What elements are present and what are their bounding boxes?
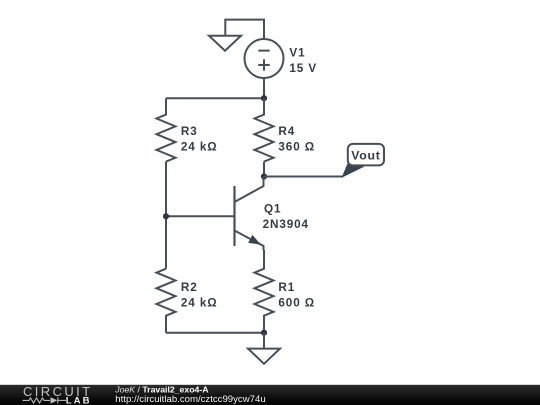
wire base node B to Q1 [166, 215, 235, 217]
svg-text:LAB: LAB [66, 396, 92, 405]
svg-text:24 kΩ: 24 kΩ [181, 141, 218, 154]
svg-text:R4: R4 [278, 125, 295, 138]
resistor R4 [255, 98, 274, 161]
resistor R1 [255, 250, 274, 333]
junction node B [163, 213, 169, 219]
resistor R2 [157, 269, 176, 333]
resistor R3 [157, 98, 176, 161]
CircuitLab logo [23, 384, 93, 405]
wire R4 to node C [263, 162, 265, 177]
label Q1 [263, 202, 309, 231]
transistor Q1 [235, 177, 264, 251]
label V1 [289, 46, 317, 75]
svg-text:JoeK / Travail2_exo4-A: JoeK / Travail2_exo4-A [114, 385, 209, 395]
svg-text:360 Ω: 360 Ω [278, 141, 315, 154]
ground (top) [209, 36, 241, 51]
svg-text:15 V: 15 V [289, 62, 317, 75]
wire R3 to node B [165, 162, 167, 217]
label R3 [181, 125, 218, 154]
svg-text:V1: V1 [289, 46, 305, 59]
net flag Vout [342, 144, 385, 178]
junction node D [261, 330, 267, 336]
svg-text:R2: R2 [181, 281, 198, 294]
label R2 [181, 281, 218, 310]
wire top rail node A to R3 [166, 97, 264, 99]
svg-text:R1: R1 [278, 281, 295, 294]
junction node C [261, 173, 267, 179]
svg-text:600 Ω: 600 Ω [278, 296, 315, 309]
svg-text:2N3904: 2N3904 [263, 218, 309, 231]
ground (bottom) [248, 349, 280, 364]
label R1 [278, 281, 315, 310]
wire node C to Vout flag [264, 176, 343, 178]
footer bar [0, 385, 540, 405]
voltage source V1 [245, 39, 284, 78]
svg-text:Q1: Q1 [264, 202, 281, 215]
wire node D to bottom ground [263, 333, 265, 349]
svg-text:http://circuitlab.com/cztcc99y: http://circuitlab.com/cztcc99ycw74u [115, 394, 265, 405]
wire V1 positive terminal to node A [263, 78, 265, 98]
svg-text:24 kΩ: 24 kΩ [181, 296, 218, 309]
svg-text:Vout: Vout [351, 149, 380, 163]
label R4 [278, 125, 315, 154]
wire node B to R2 [165, 216, 167, 268]
wire bottom rail R2 to node D [166, 332, 264, 334]
junction node A [261, 95, 267, 101]
wire V1 negative terminal to top ground [225, 20, 264, 40]
svg-text:R3: R3 [181, 125, 198, 138]
